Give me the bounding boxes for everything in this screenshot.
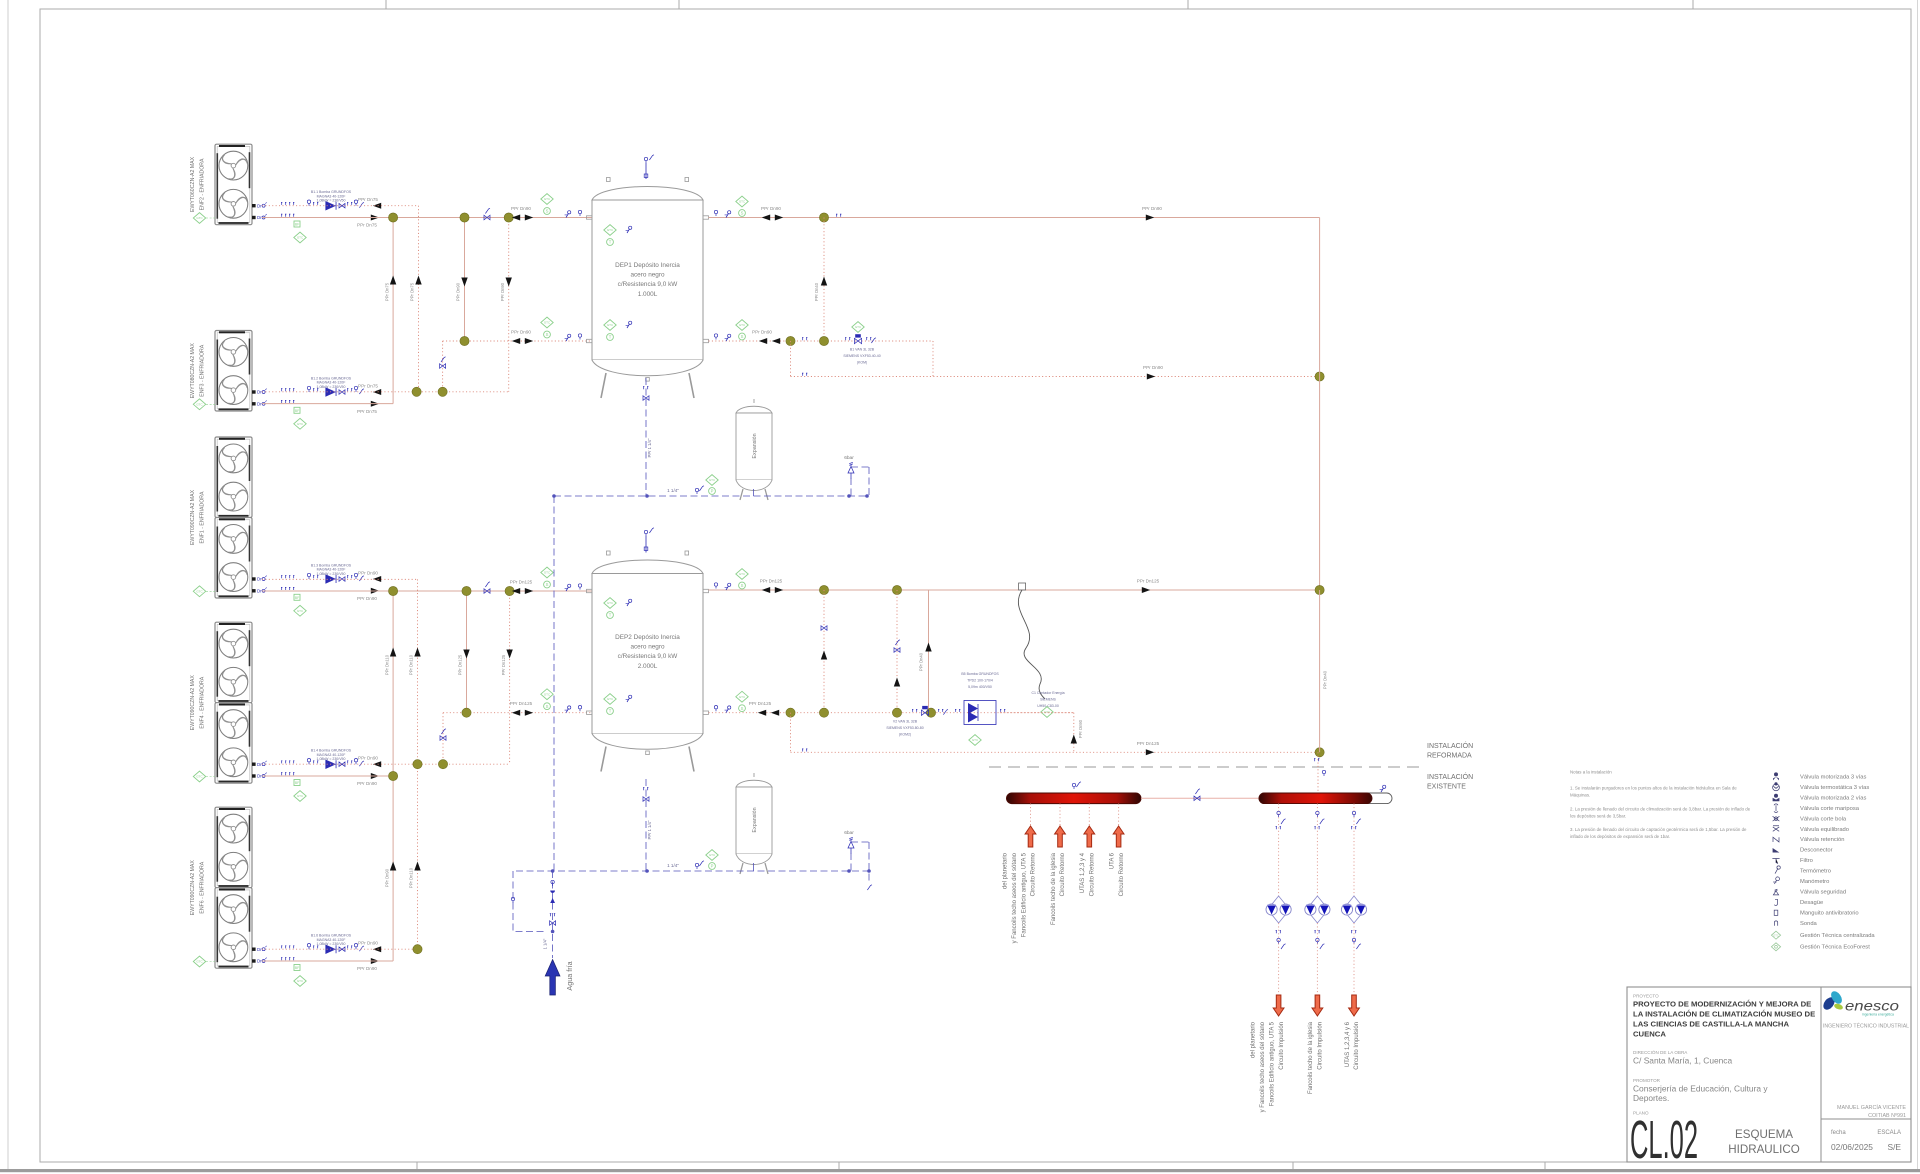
label circuito impulsion x1354 [1345, 1021, 1360, 1069]
svg-text:INSTALACIÓN: INSTALACIÓN [1427, 772, 1473, 781]
fittings lower on impulsion stub x1278 [1276, 931, 1286, 949]
fitting on y752 return [802, 749, 807, 752]
svg-text:V2 VAN 3L 32B: V2 VAN 3L 32B [893, 720, 918, 724]
notes text block [1570, 770, 1751, 840]
svg-text:PPr Dn110: PPr Dn110 [409, 654, 414, 675]
junction dot trunk y590 [1315, 585, 1324, 594]
trunk vertical solid right side upper [1319, 218, 1321, 591]
svg-text:REFORMADA: REFORMADA [1427, 753, 1472, 760]
ENF1 green BF sensor and GTC diamond [294, 594, 306, 616]
svg-text:1. Se instalarán purgadores en: 1. Se instalarán purgadores en los punto… [1570, 786, 1737, 791]
riser dotted x897 DEP2 [896, 590, 898, 713]
svg-text:GTC: GTC [297, 979, 304, 983]
svg-text:PPr Dn90: PPr Dn90 [761, 206, 781, 211]
svg-text:ENF3 - ENFRIADORA: ENF3 - ENFRIADORA [200, 344, 206, 396]
svg-text:Válvula retención: Válvula retención [1800, 837, 1844, 843]
chiller ENF1 pipe stubs [252, 577, 256, 592]
wire DEP1 return dashed right [709, 340, 934, 342]
label C1 Contador Energia [1031, 691, 1064, 708]
arrows into DEP2 supply [512, 588, 533, 594]
riser labels upper group [384, 282, 505, 301]
title block plano code CL.02 [1630, 1110, 1698, 1170]
svg-text:y Fancoils techo aseos del sót: y Fancoils techo aseos del sótano [1012, 852, 1018, 943]
safety valve 6bar lower [844, 830, 854, 854]
DEP1 air vent on top [644, 155, 654, 179]
junction dot ENF6 return riser [413, 945, 422, 954]
svg-text:Dr: Dr [257, 762, 262, 767]
svg-text:GTC: GTC [196, 216, 203, 220]
energy meter sensor box on supply [1019, 583, 1026, 590]
pump B1.6 label [311, 934, 352, 946]
svg-text:Dr: Dr [257, 588, 262, 593]
ENF1 supply flow arrow [371, 588, 379, 594]
ENF2 green BF sensor and GTC diamond [294, 221, 306, 243]
svg-text:S: S [741, 211, 744, 216]
junction dot trunk y752 [1315, 748, 1324, 757]
manometer on fill line upper [695, 486, 704, 494]
svg-text:EWYT090CZN-A2 MAX: EWYT090CZN-A2 MAX [190, 860, 196, 916]
arrow on riser x824 [821, 277, 827, 286]
riser solid x393 ENF6 to ENF4 row [392, 776, 394, 961]
svg-text:CL.02: CL.02 [1630, 1110, 1698, 1170]
arrows DEP2 supply out [762, 587, 783, 593]
svg-text:PPr Dn90: PPr Dn90 [384, 868, 389, 887]
junction dot DEP1 supply x824 [819, 213, 828, 222]
pump B1.2 label [311, 377, 352, 389]
svg-text:acero negro: acero negro [630, 272, 665, 279]
GTC diamond above B1 valve [852, 322, 864, 333]
svg-text:GTC: GTC [297, 422, 304, 426]
flow arrow y752 return [1146, 749, 1154, 755]
wire DEP1 supply out to right trunk [709, 217, 1320, 219]
svg-text:GTC: GTC [297, 609, 304, 613]
arrow up circuito retorno x1060 [1055, 826, 1066, 847]
chiller ENF1 supply-line fittings [257, 587, 294, 593]
valve glyph on supply right x840 [836, 214, 841, 217]
pump B1.4 label [311, 749, 352, 761]
DEP1 left nozzles [587, 216, 593, 343]
chiller ENF6 label [190, 860, 206, 916]
blue dots fill line lower [551, 869, 871, 873]
GTC and S sensors on DEP2 return header [541, 689, 553, 710]
GTC and P on fill line lower [706, 850, 718, 870]
fittings upper on impulsion stub x1354 [1351, 811, 1361, 829]
svg-text:DEP2 Depósito Inercia: DEP2 Depósito Inercia [615, 634, 680, 641]
svg-text:PPr Dn90: PPr Dn90 [1142, 206, 1162, 211]
svg-text:PPr Dn75: PPr Dn75 [357, 409, 377, 414]
title block promotor [1633, 1078, 1768, 1103]
svg-text:GTC: GTC [297, 236, 304, 240]
thermometer and sensor left of DEP1 nozzles [565, 210, 582, 341]
separator line reformada-existente [989, 766, 1421, 768]
svg-text:Válvula equilibrado: Válvula equilibrado [1800, 827, 1849, 833]
svg-text:Dr: Dr [257, 774, 262, 779]
svg-text:enesco: enesco [1845, 999, 1900, 1014]
pump B1.6 GRUNDFOS on ENF6 return [307, 944, 364, 954]
riser arrows upper group [390, 276, 512, 287]
arrow up circuito retorno x1089 [1084, 826, 1095, 847]
svg-text:S: S [741, 583, 744, 588]
svg-text:GTC: GTC [544, 197, 551, 201]
riser solid x928 DEP2 [928, 590, 930, 713]
svg-text:PPr Dn90: PPr Dn90 [357, 596, 377, 601]
svg-text:Dr: Dr [257, 577, 262, 582]
manifold collector retorno [1007, 793, 1142, 804]
junction dots on ENF3 return [412, 387, 447, 396]
svg-text:los depósitos será de 3,5bar.: los depósitos será de 3,5bar. [1570, 814, 1626, 819]
tank DEP1 deposito inercia 1000L [592, 178, 703, 399]
vessel upper drain stub [753, 489, 755, 496]
legend symbol Gestión Técnica EcoForest [1771, 943, 1870, 951]
legend symbol Válvula corte bola [1773, 816, 1847, 822]
expansion vessel lower [736, 773, 772, 874]
svg-text:S/E: S/E [1888, 1142, 1902, 1152]
svg-text:PPr Dn90: PPr Dn90 [500, 282, 505, 301]
svg-text:Válvula motorizada 3 vías: Válvula motorizada 3 vías [1800, 775, 1866, 781]
chiller ENF4 label [190, 675, 206, 731]
svg-text:PPr 1 1/4": PPr 1 1/4" [647, 820, 652, 839]
svg-text:SIEMENS VXF53.80-80: SIEMENS VXF53.80-80 [886, 726, 923, 730]
svg-text:S: S [546, 582, 549, 587]
svg-text:Dr: Dr [257, 203, 262, 208]
svg-text:PPr Dn90: PPr Dn90 [358, 571, 378, 576]
fill branch vertical x552 down to water inlet [552, 871, 554, 958]
chiller ENF1 label [190, 489, 206, 545]
svg-text:GTC: GTC [1044, 710, 1051, 714]
DEP1 internal GTC sensors [604, 225, 632, 341]
riser dotted x417 ENF4 to ENF6 row [417, 764, 419, 949]
svg-text:Dr: Dr [257, 401, 262, 406]
svg-text:ENF2 - ENFRIADORA: ENF2 - ENFRIADORA [200, 158, 206, 210]
svg-text:Notas a la instalación: Notas a la instalación [1570, 770, 1612, 775]
svg-text:T: T [609, 613, 612, 618]
chiller ENF1 cabinet [215, 437, 252, 598]
svg-text:PPr Dn90: PPr Dn90 [752, 330, 772, 335]
riser labels lower group [384, 654, 506, 888]
svg-text:Termómetro: Termómetro [1800, 869, 1831, 875]
wire DEP2 supply out to right trunk [709, 589, 1320, 591]
valve on ENF2 supply x487 [484, 208, 490, 219]
svg-text:inflado de los depósitos de ex: inflado de los depósitos de expansión se… [1570, 834, 1670, 839]
frame tick marks bottom [417, 1162, 1545, 1169]
wire ENF6 supply solid [262, 960, 393, 962]
svg-text:1.000L: 1.000L [638, 291, 658, 298]
label circuito retorno x1030 [1003, 852, 1037, 943]
label INSTALACION REFORMADA [1427, 741, 1473, 760]
label B5 Bomba GRUNDFOS [961, 672, 999, 689]
chiller ENF3 cabinet [215, 331, 252, 412]
svg-text:2.000L: 2.000L [638, 663, 658, 670]
svg-text:1 1/4": 1 1/4" [543, 938, 548, 949]
chiller ENF3 label [190, 343, 206, 399]
title block project name [1633, 994, 1815, 1039]
pump B1.2 GRUNDFOS on ENF3 return [307, 386, 364, 396]
legend symbol Válvula equilibrado [1773, 826, 1849, 833]
svg-text:SIEMENS VXF53.40-40: SIEMENS VXF53.40-40 [843, 354, 880, 358]
sensors right of DEP1 bottom nozzle [714, 334, 731, 341]
svg-text:Expansión: Expansión [752, 807, 758, 832]
junction dots on ENF2 supply [389, 213, 514, 222]
valve on ENF1 supply x487 [484, 582, 490, 593]
sheet outer border left [7, 0, 9, 1171]
impulsion stub lower dashed x1354 [1353, 923, 1355, 993]
svg-text:PPr 1 1/4": PPr 1 1/4" [647, 438, 652, 457]
svg-text:PPr Dn90: PPr Dn90 [511, 330, 531, 335]
title block direccion [1633, 1049, 1732, 1066]
svg-text:Expansión: Expansión [752, 433, 758, 458]
ENF4 green BF sensor and GTC diamond [294, 780, 306, 802]
flow arrow y376 return [1147, 374, 1155, 380]
riser dotted x508 down to ENF3 return row [508, 218, 510, 392]
arrows DEP1 supply out [762, 215, 783, 221]
label B1 VAN 3L [843, 348, 880, 365]
svg-text:BF: BF [295, 223, 299, 227]
svg-text:P: P [711, 864, 714, 869]
manifold glyph above [1072, 782, 1081, 789]
svg-text:c/Resistencia 9,0 kW: c/Resistencia 9,0 kW [618, 653, 679, 660]
manifold impulsion stub x1278 [1278, 804, 1280, 898]
svg-text:6bar: 6bar [844, 830, 854, 836]
svg-text:Máquinas.: Máquinas. [1570, 793, 1590, 798]
strainer valves on impulsion stub x1317 [1305, 896, 1330, 923]
svg-text:c/Resistencia 9,0 kW: c/Resistencia 9,0 kW [618, 281, 679, 288]
wire between manifolds [1141, 797, 1259, 799]
svg-text:Agua fría: Agua fría [565, 961, 574, 990]
svg-text:T: T [609, 335, 612, 340]
legend symbol Válvula corte mariposa [1774, 804, 1860, 813]
chiller ENF6 supply-line fittings [257, 958, 294, 964]
chiller ENF4 cabinet [215, 622, 252, 783]
fitting on y376 return [802, 373, 807, 376]
chiller ENF3 pipe stubs [252, 390, 256, 405]
svg-text:1 1/4": 1 1/4" [667, 488, 679, 493]
ENF6 return flow arrow [373, 946, 381, 952]
arrows DEP2 return right [758, 710, 779, 716]
svg-text:GTC: GTC [607, 697, 614, 701]
safety valve bypass dashed lower [851, 842, 872, 890]
legend symbol Filtro [1772, 858, 1812, 864]
manifold impulsion stub x1354 [1353, 804, 1355, 898]
chiller ENF3 return-line fittings [257, 389, 294, 395]
svg-text:Dr: Dr [257, 959, 262, 964]
svg-text:GTC: GTC [607, 601, 614, 605]
GTC and S right of DEP2 supply line [736, 569, 748, 589]
fill line blue dashed upper y496 [554, 495, 867, 497]
riser solid x464 supply down to DEP1 return header [464, 218, 466, 342]
svg-text:5,09m 400/V50: 5,09m 400/V50 [968, 685, 992, 689]
svg-text:BF: BF [295, 409, 299, 413]
svg-text:GTC: GTC [739, 323, 746, 327]
DEP1 right nozzles [703, 216, 709, 343]
arrow down circuito impulsion x1278 [1273, 995, 1284, 1016]
svg-text:PROYECTO DE MODERNIZACIÓN Y ME: PROYECTO DE MODERNIZACIÓN Y MEJORA DE [1633, 1000, 1811, 1009]
label V2 VAN 3L [886, 720, 923, 737]
svg-text:Gestión Técnica EcoForest: Gestión Técnica EcoForest [1800, 944, 1870, 950]
wire lower return dashed y752 to trunk [791, 751, 1320, 753]
legend symbol Válvula retención [1773, 837, 1844, 843]
chiller ENF4 pipe stubs [252, 763, 256, 778]
arrow on riser x928 [925, 643, 931, 652]
pump B1.3 GRUNDFOS on ENF1 return [307, 573, 364, 583]
wire ENF3 supply solid [262, 403, 393, 405]
legend symbol Válvula termostática 3 vías [1773, 782, 1870, 791]
svg-text:PPr Dn75: PPr Dn75 [358, 384, 378, 389]
GTC and S sensors on DEP2 supply inlet [541, 567, 553, 588]
pump B1.1 label [311, 190, 352, 202]
chiller ENF4 return-line fittings [257, 761, 294, 767]
fitting on riser x824 DEP2 [821, 626, 827, 660]
fittings on trunk into manifold [1314, 759, 1326, 776]
svg-text:Dr: Dr [257, 215, 262, 220]
pump B1.1 GRUNDFOS on ENF2 return [307, 200, 364, 210]
GTC and S sensors on DEP1 return header [541, 317, 553, 338]
svg-text:PROYECTO: PROYECTO [1633, 994, 1659, 999]
motorized valve B1 VAN 3L [845, 334, 876, 344]
svg-text:Gestión Técnica centralizada: Gestión Técnica centralizada [1800, 933, 1875, 939]
chiller ENF2 cabinet [215, 144, 252, 225]
arrows on DEP1 return header [512, 338, 533, 344]
arrow up circuito retorno x1030 [1025, 826, 1036, 847]
chiller ENF1 return-line fittings [257, 576, 294, 582]
thermometer and sensor left of DEP2 nozzles [565, 584, 582, 713]
svg-text:UTAS 1,2,3 y 4: UTAS 1,2,3 y 4 [1080, 852, 1086, 893]
DEP2 air vent on top [644, 528, 654, 553]
svg-text:GTC: GTC [544, 692, 551, 696]
chiller ENF6 return-line fittings [257, 946, 294, 952]
svg-text:fecha: fecha [1831, 1130, 1846, 1136]
svg-text:y Fancoils techo aseos del sót: y Fancoils techo aseos del sótano [1260, 1021, 1266, 1112]
chiller ENF4 supply-line fittings [257, 773, 294, 779]
legend symbol Manómetro [1773, 877, 1829, 885]
wire return continues to x1073 [1000, 712, 1074, 714]
svg-text:EWYT080CZN-A2 MAX: EWYT080CZN-A2 MAX [190, 343, 196, 399]
svg-text:EXISTENTE: EXISTENTE [1427, 784, 1466, 791]
arrow up circuito retorno x1118 [1113, 826, 1124, 847]
svg-text:BF: BF [295, 966, 299, 970]
svg-text:ENF6 - ENFRIADORA: ENF6 - ENFRIADORA [200, 861, 206, 913]
enesco logo [1821, 989, 1900, 1016]
svg-text:Válvula termostática 3 vías: Válvula termostática 3 vías [1800, 785, 1869, 791]
riser dotted x1073 return drop [1073, 713, 1075, 753]
junction dots on ENF4 return [413, 760, 448, 769]
chiller ENF2 GTC diamond [193, 213, 215, 224]
junction dot on DEP2 return header [462, 708, 471, 717]
manifold retorno stub x1118 [1118, 804, 1120, 826]
chiller ENF3 GTC diamond [193, 399, 215, 410]
svg-text:EWYT060CZN-A2 MAX: EWYT060CZN-A2 MAX [190, 156, 196, 212]
svg-text:PPr Dn90: PPr Dn90 [358, 756, 378, 761]
chiller ENF3 supply-line fittings [257, 400, 294, 406]
svg-text:GTC: GTC [1773, 933, 1779, 937]
svg-text:BF: BF [295, 596, 299, 600]
DEP1 drain valve fittings [643, 387, 649, 401]
flow arrow right trunk supply [1146, 215, 1154, 221]
svg-text:PPr Dn40: PPr Dn40 [919, 652, 924, 671]
junction dot trunk top of vertical [1315, 372, 1324, 381]
svg-text:GTC: GTC [607, 323, 614, 327]
svg-text:Dr: Dr [257, 390, 262, 395]
valve on connector x443 [440, 729, 446, 740]
svg-text:PPr Dn90: PPr Dn90 [1143, 365, 1163, 370]
svg-text:PPr Dn125: PPr Dn125 [458, 654, 463, 675]
bypass dashed box left of fill branch [511, 871, 544, 932]
svg-text:GTC: GTC [297, 794, 304, 798]
svg-text:LAS CIENCIAS DE CASTILLA-LA MA: LAS CIENCIAS DE CASTILLA-LA MANCHA [1633, 1020, 1789, 1029]
svg-text:ENF4 - ENFRIADORA: ENF4 - ENFRIADORA [200, 676, 206, 728]
blue dot at fill branch [551, 930, 555, 934]
svg-text:PPr Dn90: PPr Dn90 [1078, 719, 1083, 738]
ENF4 supply flow arrow [371, 773, 379, 779]
fittings upper on impulsion stub x1278 [1276, 811, 1286, 829]
svg-text:PPr Dn125: PPr Dn125 [760, 579, 783, 584]
DEP2 drain valve fittings [643, 788, 649, 802]
svg-text:GTC: GTC [739, 695, 746, 699]
valve on connector x442 [440, 357, 446, 368]
manometer on fill line lower [695, 861, 704, 869]
svg-text:PPr Dn40: PPr Dn40 [1323, 670, 1328, 689]
svg-text:GTC: GTC [739, 200, 746, 204]
legend symbol Válvula seguridad [1773, 889, 1846, 895]
drop dotted x790 DEP2 to y752 [790, 713, 792, 753]
chiller ENF2 label [190, 156, 206, 212]
pump B1.3 label [311, 564, 352, 576]
svg-text:(KOM): (KOM) [857, 361, 867, 365]
svg-text:GTC: GTC [709, 853, 716, 857]
trunk vertical solid right side lower [1319, 590, 1321, 752]
chiller ENF6 GTC diamond [193, 956, 215, 967]
svg-text:1,08kW = 230/V50: 1,08kW = 230/V50 [317, 572, 346, 576]
label circuito retorno x1118 [1109, 852, 1124, 896]
blue dots fill line upper [552, 494, 869, 498]
GTC and S sensors on DEP1 supply inlet [541, 194, 553, 215]
connector dotted x442 to ENF3 return [442, 341, 444, 392]
ENF3 green BF sensor and GTC diamond [294, 407, 306, 429]
DEP2 drain line blue dashed [645, 779, 647, 871]
label circuito retorno x1089 [1080, 852, 1095, 896]
thermometer at manifold 2 end [1380, 785, 1386, 792]
DEP2 internal GTC sensors [604, 598, 632, 715]
svg-text:2. La presión de llenado del c: 2. La presión de llenado del circuito de… [1570, 807, 1751, 812]
svg-text:Dr: Dr [257, 947, 262, 952]
arrow down circuito impulsion x1317 [1312, 995, 1323, 1016]
valve fittings x806 on return [802, 338, 807, 341]
svg-text:Circuito Retorno: Circuito Retorno [1060, 852, 1066, 896]
fittings upper on impulsion stub x1317 [1314, 811, 1324, 829]
pressure reducer station on fill branch [550, 880, 556, 925]
frame tick marks top [386, 0, 1693, 9]
arrow down circuito impulsion x1354 [1349, 995, 1360, 1016]
svg-text:GTC: GTC [855, 325, 862, 329]
wire ENF1 supply solid to DEP2 [262, 590, 592, 592]
safety valve bypass dashed upper [851, 467, 869, 496]
riser solid x466 down to DEP2 return header [466, 591, 468, 713]
chiller ENF2 pipe stubs [252, 204, 256, 219]
svg-text:PPr Dn75: PPr Dn75 [357, 223, 377, 228]
energy meter cable wavy [1018, 590, 1045, 699]
svg-text:Desconector: Desconector [1800, 848, 1833, 854]
motorized valve V2 VAN 3L [912, 706, 948, 716]
svg-text:1 1/4": 1 1/4" [667, 863, 679, 868]
GTC diamonds below pump B5 [969, 707, 1053, 746]
svg-text:PPr Dn75: PPr Dn75 [384, 282, 389, 301]
svg-text:T: T [609, 709, 612, 714]
fittings lower on impulsion stub x1354 [1351, 931, 1361, 949]
legend symbol Manguito antivibratorio [1774, 910, 1858, 916]
balance valve on riser x897 [894, 640, 900, 687]
svg-text:P: P [711, 489, 714, 494]
sensors right of DEP2 bottom nozzle [714, 706, 731, 713]
title block author [1837, 1104, 1906, 1119]
